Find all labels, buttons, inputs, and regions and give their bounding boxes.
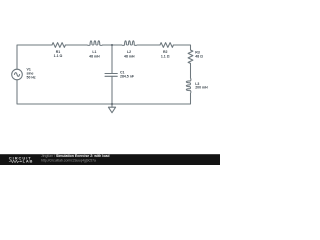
svg-text:L1: L1 <box>92 50 96 54</box>
capacitor C1 plate bottom <box>105 75 117 77</box>
label V1 <box>27 67 36 79</box>
wire L2 to R2 <box>137 44 160 46</box>
wire R2 to top-right corner <box>173 45 190 50</box>
wire C1 branch bottom <box>111 76 113 104</box>
label L3 <box>195 82 208 90</box>
ground stub <box>111 104 113 107</box>
svg-text:48 Ω: 48 Ω <box>195 55 203 59</box>
svg-text:48 mH: 48 mH <box>89 55 100 59</box>
V1 sine glyph <box>14 73 19 77</box>
svg-text:48 mH: 48 mH <box>124 55 135 59</box>
svg-text:R2: R2 <box>163 50 168 54</box>
label L2 <box>124 50 135 58</box>
ground triangle <box>108 107 115 113</box>
inductor L1 <box>87 41 102 46</box>
label R1 <box>54 50 63 58</box>
node B junction dot <box>111 103 113 105</box>
svg-text:LAB: LAB <box>23 159 34 164</box>
svg-text:L2: L2 <box>127 50 131 54</box>
node A junction dot <box>111 44 113 46</box>
wire node A to L2 <box>112 44 122 46</box>
capacitor C1 plate top <box>105 73 117 75</box>
resistor R3 <box>188 50 193 63</box>
logo diamond <box>20 160 22 162</box>
inductor L3 <box>186 78 191 93</box>
wire L1 to node A <box>103 44 112 46</box>
label R2 <box>161 50 170 59</box>
svg-text:284.5 nF: 284.5 nF <box>120 74 135 78</box>
resistor R1 <box>52 43 65 48</box>
footer bar <box>0 154 220 165</box>
label R3 <box>195 50 203 58</box>
wire R1 to L1 <box>65 44 87 46</box>
wire C1 branch top <box>111 45 113 74</box>
label L1 <box>89 50 100 59</box>
voltage source V1 circle <box>12 69 23 80</box>
wire left vertical and top-left <box>17 45 52 69</box>
inductor L2 <box>122 41 137 46</box>
logo resistor zigzag <box>9 160 20 162</box>
label C1 <box>120 71 135 79</box>
wire R3 to L3 <box>190 63 192 78</box>
svg-text:1.1 Ω: 1.1 Ω <box>161 55 170 59</box>
svg-text:200 mH: 200 mH <box>195 86 208 90</box>
resistor R2 <box>160 43 173 48</box>
svg-text:http://circuitlab.com/c2suuq4g: http://circuitlab.com/c2suuq4gj9c57a <box>41 158 96 162</box>
svg-text:50 Hz: 50 Hz <box>27 75 36 79</box>
wire L3 to bottom wire and bottom wire to V1 <box>17 80 191 104</box>
svg-text:1.1 Ω: 1.1 Ω <box>54 54 63 58</box>
svg-text:R1: R1 <box>56 50 61 54</box>
